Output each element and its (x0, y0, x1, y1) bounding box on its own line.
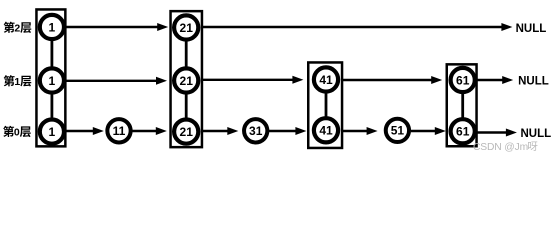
svg-text:CSDN @Jm: CSDN @Jm (473, 142, 528, 153)
svg-text:41: 41 (319, 73, 333, 87)
node 41 tower box (308, 62, 342, 148)
svg-text:2: 2 (14, 23, 20, 35)
arrow L1: 21 to 41 (203, 76, 304, 84)
level label 第2层 (4, 22, 32, 35)
svg-text:1: 1 (49, 74, 56, 88)
arrow L0: 11 to 21 (132, 127, 167, 135)
arrow L1: 41 to 61 (343, 76, 443, 84)
wire: node 21 vertical link L2-L1 (185, 38, 188, 70)
svg-text:1: 1 (49, 20, 56, 34)
arrow L0: 21 to 31 (203, 127, 239, 135)
node 61 circle L0 (451, 119, 475, 143)
svg-text:1: 1 (14, 76, 20, 88)
svg-text:41: 41 (319, 124, 333, 138)
node 1 tower box (36, 9, 65, 146)
arrow L0: 51 to 61 (411, 127, 446, 135)
label NULL L0 (521, 128, 552, 140)
svg-text:61: 61 (456, 125, 470, 139)
svg-text:0: 0 (14, 127, 20, 139)
svg-text:NULL: NULL (521, 128, 552, 140)
skip list diagram (0, 0, 554, 162)
wire: node 1 vertical link L2-L1 (51, 38, 54, 70)
svg-text:1: 1 (49, 125, 56, 139)
node 21 circle L1 (174, 68, 198, 92)
node 51 circle L0 (386, 119, 409, 142)
arrow L0: 31 to 41 (269, 127, 306, 135)
label NULL L2 (516, 23, 547, 35)
node 11 circle L0 (107, 119, 130, 142)
arrow L2: 1 to 21 (64, 23, 168, 31)
node 41 circle L1 (314, 67, 338, 91)
node 1 circle L1 (40, 68, 64, 92)
node 41 circle L0 (314, 118, 338, 142)
svg-text:21: 21 (180, 74, 194, 88)
wire: node 61 vertical link L1-L0 (461, 91, 464, 120)
svg-text:NULL: NULL (516, 23, 547, 35)
node 1 circle L2 (40, 15, 64, 39)
node 61 tower box (447, 64, 477, 146)
wire: node 1 vertical link L1-L0 (51, 92, 54, 121)
svg-text:51: 51 (391, 124, 405, 138)
svg-text:21: 21 (180, 21, 194, 35)
arrow L0: 61 to NULL (477, 129, 517, 137)
node 21 tower box (171, 11, 202, 147)
arrow L1: 61 to NULL (477, 76, 513, 84)
arrow L1: 1 to 21 (64, 77, 167, 85)
svg-text:31: 31 (249, 124, 263, 138)
svg-text:21: 21 (180, 125, 194, 139)
level label 第1层 (4, 75, 32, 88)
label NULL L1 (518, 75, 549, 87)
svg-text:NULL: NULL (518, 75, 549, 87)
node 61 circle L1 (451, 68, 475, 92)
svg-text:61: 61 (456, 73, 470, 87)
node 1 circle L0 (40, 120, 64, 144)
wire: node 41 vertical link L1-L0 (325, 91, 328, 121)
watermark CSDN @Jm呀 (473, 141, 537, 152)
arrow L2: 21 to NULL (203, 23, 513, 31)
arrow L0: 41 to 51 (343, 127, 378, 135)
node 21 circle L0 (174, 120, 198, 144)
node 31 circle L0 (244, 119, 267, 142)
node 21 circle L2 (174, 15, 198, 39)
wire: node 21 vertical link L1-L0 (185, 92, 188, 121)
arrow L0: 1 to 11 (64, 127, 104, 135)
svg-text:11: 11 (113, 124, 126, 138)
level label 第0层 (3, 126, 31, 139)
